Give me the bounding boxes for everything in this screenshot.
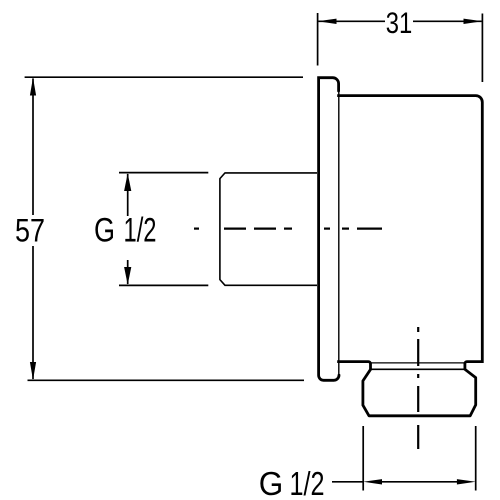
dimension 57 line	[32, 79, 34, 380]
svg-text:57: 57	[15, 213, 45, 249]
bottom nut outlet (thick outline)	[363, 369, 476, 416]
nut top edge thin line	[372, 368, 465, 370]
inner G 1/2 dimension line	[127, 174, 129, 284]
horizontal centerline (dash-dot)	[194, 228, 382, 230]
inner G 1/2 arrowheads	[124, 173, 131, 285]
bottom G 1/2 extension line left	[362, 426, 364, 491]
dimension 31 arrowheads	[318, 19, 483, 24]
dimension 57 extension line bottom	[28, 379, 305, 381]
flange/body joint thin vertical edge	[338, 90, 340, 374]
dimension 31 extension line left	[317, 13, 319, 66]
body bottom thin continuation line	[372, 362, 465, 364]
bottom G 1/2 dimension line and leader	[332, 481, 458, 483]
bottom G 1/2 extension line right	[475, 426, 477, 491]
inner G 1/2 extension line bottom	[119, 284, 208, 286]
svg-text:31: 31	[386, 7, 413, 40]
body (main block, thick outline)	[339, 96, 483, 369]
inner G 1/2 extension line top	[119, 172, 208, 174]
dimension 57 arrowheads	[30, 78, 36, 381]
svg-text:G: G	[94, 212, 115, 250]
flange (wall plate, thick outline)	[319, 78, 339, 381]
dimension 57 extension line top	[25, 76, 303, 78]
rear connector pipe (chamfered, medium outline)	[220, 173, 317, 285]
bottom G 1/2 arrowheads	[363, 479, 476, 484]
vertical centerline of outlet (dash-dot)	[417, 327, 419, 449]
svg-text:G: G	[259, 465, 284, 500]
dimension 31 line	[319, 20, 482, 22]
dimension 31 extension line right	[481, 14, 483, 83]
svg-text:1/2: 1/2	[290, 465, 325, 500]
svg-text:1/2: 1/2	[124, 212, 157, 250]
